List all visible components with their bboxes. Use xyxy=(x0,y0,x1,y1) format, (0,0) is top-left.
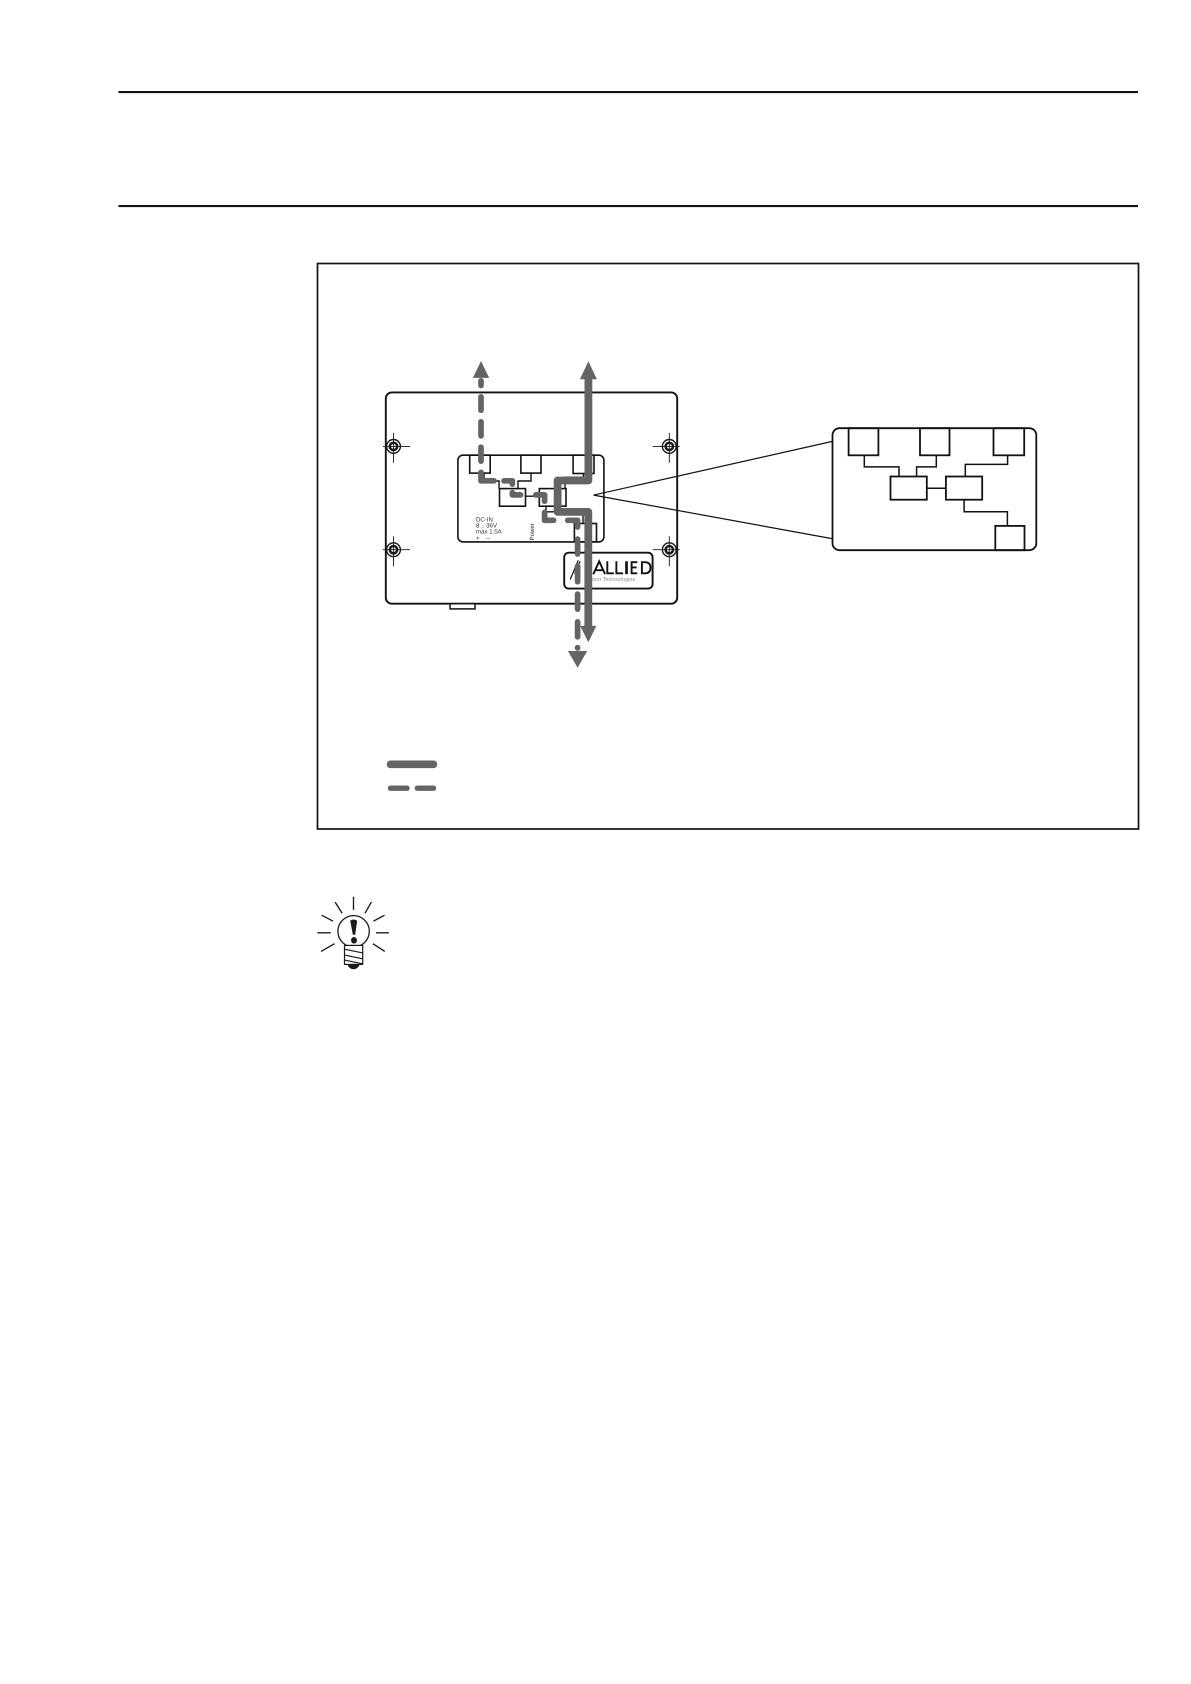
logo box ALLIED xyxy=(564,553,652,589)
logo text ALLIED (vector letters) xyxy=(593,561,650,574)
device bottom tab xyxy=(450,604,475,609)
grey dashed arrow head top xyxy=(473,361,489,378)
grey solid arrow head top xyxy=(580,361,597,379)
bulb circle xyxy=(338,916,369,947)
grey solid route xyxy=(558,379,589,627)
wire conn3 to right box xyxy=(565,474,584,489)
bulb base xyxy=(345,945,363,964)
wire conn1 to left box xyxy=(484,473,499,489)
logo wing stroke 1 xyxy=(570,560,578,579)
base cap xyxy=(347,965,360,970)
svg-text:Power: Power xyxy=(529,523,536,540)
rays xyxy=(317,897,389,952)
detail right mid box xyxy=(946,477,982,500)
base thread 1 xyxy=(345,949,363,953)
detail top rect C xyxy=(994,428,1025,455)
detail wire B to left box xyxy=(917,455,937,476)
detail wire A to left box xyxy=(864,455,899,476)
svg-text:+ –: + – xyxy=(476,535,490,542)
device body xyxy=(386,392,677,603)
note lightbulb icon xyxy=(317,897,389,970)
connector 2 (middle) xyxy=(521,455,541,473)
header rule top xyxy=(119,91,1139,93)
callout line upper xyxy=(594,441,834,495)
logo wing stroke 2 xyxy=(575,561,581,573)
detail box xyxy=(833,428,1037,550)
detail left mid box xyxy=(891,477,927,500)
exclamation bar xyxy=(350,919,357,934)
legend solid line xyxy=(391,760,434,768)
screw top-left xyxy=(383,433,410,463)
detail wire right box to bottom rect xyxy=(964,500,1007,526)
wire conn2 to left box xyxy=(518,473,531,489)
screw top-right xyxy=(653,433,680,463)
detail top rect A xyxy=(849,428,879,455)
grey dashed route (hand-placed dashes) xyxy=(481,381,578,648)
bottom connector xyxy=(574,524,596,542)
screw bottom-right xyxy=(653,536,680,566)
callout line lower xyxy=(594,495,834,539)
svg-text:Vision Technologies: Vision Technologies xyxy=(586,576,635,583)
grey solid arrow head bottom xyxy=(580,626,596,642)
label DC-IN block xyxy=(476,517,503,543)
detail wire C to right box xyxy=(965,455,1007,476)
detail bottom rect xyxy=(995,526,1024,550)
header rule 2 xyxy=(119,205,1139,207)
wire right box to bottom connector xyxy=(546,506,583,523)
exclamation dot xyxy=(351,937,357,944)
inner connector panel xyxy=(458,455,604,542)
legend dashed line xyxy=(391,786,434,791)
connector 3 (right) xyxy=(573,455,594,473)
detail wire between mid boxes xyxy=(927,487,946,489)
figure frame xyxy=(318,264,1139,830)
left mid box xyxy=(500,489,526,507)
wire between mid boxes xyxy=(526,495,540,497)
base thread 2 xyxy=(345,955,363,959)
base thread 3 xyxy=(345,960,363,964)
connector 1 (left) xyxy=(470,455,491,473)
grey dashed arrow head bottom xyxy=(568,651,587,668)
detail top rect B xyxy=(920,428,950,455)
right mid box xyxy=(539,489,566,507)
screw bottom-left xyxy=(383,536,410,566)
